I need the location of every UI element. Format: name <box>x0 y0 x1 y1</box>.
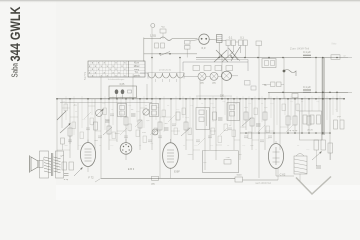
electrolytic blob 2 <box>121 89 125 94</box>
capacitor C block top right <box>303 50 311 58</box>
dial lamp <box>199 34 209 50</box>
resistor bottom middle <box>151 176 158 185</box>
coil taps <box>154 79 156 82</box>
wire right bus at 133 <box>240 132 330 134</box>
wire right power drops <box>315 150 317 166</box>
tube V4 UCL11 (oval) <box>268 141 286 177</box>
wire tuning row <box>206 75 210 77</box>
switch arm diagonal 1 <box>229 48 239 60</box>
mains choke with core <box>294 154 307 175</box>
resistor right power 3 <box>328 143 333 153</box>
transformer frame right <box>56 151 64 178</box>
transformer core <box>51 153 52 176</box>
wire bottom loop bottom <box>203 172 239 174</box>
capacitor mid 5 <box>256 124 261 126</box>
resistor under fuse 1 <box>155 43 159 48</box>
resistor mid 3 <box>124 117 128 125</box>
IF filter can 2 <box>150 104 159 117</box>
resistor mid 6 <box>176 112 180 120</box>
wire mid-right bus <box>268 91 348 93</box>
resistor right rail 1 <box>286 116 290 125</box>
check mark annotation <box>296 177 331 195</box>
resistor in right box 2 <box>310 115 314 124</box>
svg-text:Zum UKW-Teil: Zum UKW-Teil <box>290 47 310 51</box>
antenna coil windings <box>148 73 184 79</box>
resistor mid 11 <box>263 112 267 120</box>
svg-text:0,05: 0,05 <box>120 83 125 86</box>
wire drop from cap block <box>218 43 220 58</box>
resistor right rail 2 <box>293 116 297 125</box>
wire bottom diagonal left <box>95 178 101 182</box>
resistor mid 5 <box>158 122 162 130</box>
resistor left rail <box>68 128 72 136</box>
tube V1 UCH11 (oval) <box>80 140 95 180</box>
scattered value labels <box>60 104 268 164</box>
extra capacitor symbols <box>68 114 272 142</box>
wire bottom loop right <box>238 151 240 173</box>
oscillator coil 1 <box>193 66 200 71</box>
wire speaker links <box>43 157 44 161</box>
resistor lower-left 1 <box>62 162 67 170</box>
node dots top bus <box>151 57 153 59</box>
svg-text:Lang: Lang <box>134 69 140 71</box>
svg-text:1M: 1M <box>238 154 241 156</box>
wire dial lamp left <box>190 40 199 42</box>
switch arm diagonal 2 <box>231 47 240 61</box>
resistor above heater wire <box>160 27 166 39</box>
oscillator coil 4 <box>226 66 233 71</box>
trimmer arrow lower-left <box>74 168 82 176</box>
wire box drops <box>116 95 118 99</box>
wave switch unit box <box>109 83 137 98</box>
fuse Si <box>160 37 172 41</box>
resistor right power 2 <box>321 140 326 150</box>
trimmer arrow right power <box>312 152 321 160</box>
svg-text:6,3: 6,3 <box>202 46 206 50</box>
capacitor bottom <box>235 175 243 183</box>
resistor mid 10 <box>250 118 254 126</box>
svg-text:2μ 2μ 2μ: 2μ 2μ 2μ <box>289 130 298 132</box>
resistor box far right top <box>331 43 346 60</box>
oscillator coil 2 <box>204 66 211 71</box>
trimmer arrow left <box>60 124 70 133</box>
stub wires above bus <box>66 96 340 99</box>
svg-text:20 20: 20 20 <box>307 130 313 132</box>
wire upper partial bus <box>196 95 232 97</box>
resistor mid 2 <box>107 126 111 134</box>
capacitor mid 4 <box>218 118 223 120</box>
band switch cross <box>214 50 240 62</box>
resistor lower-left 2 <box>69 162 74 170</box>
svg-text:Mittel: Mittel <box>134 65 140 68</box>
capacitor mid 3 <box>164 128 169 130</box>
wire right end mid <box>348 91 352 93</box>
svg-text:nach UKW-Teil: nach UKW-Teil <box>255 182 271 185</box>
resistor right edge 2 <box>340 120 344 129</box>
resistor mid 4 <box>138 120 142 128</box>
capacitor right power <box>316 166 321 168</box>
oscillator coil 3 <box>215 66 222 71</box>
wire left small links <box>62 144 64 150</box>
node dots center bus <box>56 98 58 100</box>
resistor right rail 3 <box>307 116 311 125</box>
wire heater feed upper <box>144 38 160 40</box>
resistor in right box 3 <box>317 115 321 124</box>
capacitor hatched block <box>217 35 223 43</box>
wire resistor stack drop <box>186 49 188 57</box>
extra faint value labels <box>63 101 338 151</box>
resistor pair A top row <box>226 36 235 46</box>
title Saba 344 GWLK <box>7 7 23 78</box>
svg-text:Schalterstellungen: Schalterstellungen <box>108 78 124 81</box>
resistor right power 1 <box>314 140 319 150</box>
small cap in box <box>128 90 132 93</box>
wire top segment to lamp area <box>222 40 226 42</box>
capacitor lower-left <box>64 174 69 182</box>
svg-text:Netz: Netz <box>332 43 338 46</box>
wire x284 vertical <box>283 58 285 99</box>
wire coil row left <box>140 72 148 74</box>
tuning capacitor section 2 <box>210 72 218 84</box>
wire right lower link <box>275 168 277 176</box>
switch position table <box>88 61 145 81</box>
speaker frame box <box>40 151 49 178</box>
box right mid <box>300 111 322 140</box>
small box mid cluster <box>251 86 256 90</box>
wire coil row right <box>184 75 198 77</box>
TA component pair <box>262 82 284 87</box>
resistor mid 8 <box>213 112 217 120</box>
resistor mid 7 <box>184 122 188 130</box>
wire right end top <box>348 57 352 59</box>
loudspeaker <box>30 156 44 173</box>
trimmer arrow mid3 <box>242 118 251 126</box>
coupling cap left <box>61 138 65 144</box>
vertical wires from center bus <box>57 46 337 179</box>
trimmer arrow mid2 <box>181 128 190 136</box>
wire bottom run right <box>243 179 279 181</box>
svg-text:51773: 51773 <box>83 71 87 80</box>
resistor pair B top row <box>239 36 248 46</box>
svg-text:344 GWLK: 344 GWLK <box>7 7 23 62</box>
variable trimmer 1 <box>96 109 104 117</box>
svg-text:Sperrkr.: Sperrkr. <box>132 74 140 77</box>
svg-text:0,1 μF: 0,1 μF <box>303 85 311 89</box>
antenna switch arm <box>57 111 66 120</box>
resistor in right box 1 <box>303 115 307 124</box>
wire dial lamp right <box>209 39 222 40</box>
svg-text:0,1: 0,1 <box>229 36 233 40</box>
capacitor C block mid right <box>303 85 311 92</box>
junction blob right <box>283 70 286 73</box>
trimmer arrow mid <box>103 127 112 135</box>
svg-text:a 4μ: a 4μ <box>64 179 69 181</box>
output transformer primary <box>44 157 51 173</box>
svg-text:T.A.: T.A. <box>135 71 139 74</box>
wire x322 stub below bus133 <box>322 135 324 140</box>
resistor under fuse 2 <box>161 43 165 48</box>
extra vertical wires <box>66 99 340 135</box>
wire bottom loop top <box>203 150 239 152</box>
short connector wires midband <box>57 106 288 150</box>
svg-text:Saba: Saba <box>10 63 20 78</box>
IF filter can 4 <box>227 103 240 121</box>
extra diagonal trimmer arrows <box>84 112 293 145</box>
wire x152 vertical top <box>151 28 153 99</box>
oscillator coil pack frame <box>183 60 248 72</box>
svg-text:5000: 5000 <box>187 154 193 156</box>
svg-text:1M: 1M <box>164 123 167 125</box>
resistor small at x259 top <box>256 41 262 46</box>
svg-text:F 72: F 72 <box>88 176 94 180</box>
resistor stack R dial lower <box>185 46 191 50</box>
resistor right edge 1 <box>334 120 338 129</box>
svg-text:0,1: 0,1 <box>240 36 244 40</box>
node dots right bus <box>245 132 247 134</box>
wire main top bus <box>196 57 348 59</box>
electrolytic blob 1 <box>115 89 119 94</box>
twin conductor vertical <box>322 58 324 136</box>
capacitor mid 1 <box>105 120 110 122</box>
IF filter can 3 <box>196 108 210 130</box>
svg-text:5000: 5000 <box>237 175 243 177</box>
small box right of tuning row <box>245 81 251 86</box>
tube V3 UBF11 (oval) <box>163 139 181 178</box>
resistor T42 in loop <box>224 157 231 164</box>
resistor mid 9 <box>244 112 248 120</box>
tube V2 indicator (round) <box>120 139 135 171</box>
wire bottom loop left <box>202 151 204 173</box>
capacitor mid 2 <box>131 114 136 116</box>
wire secondary bus below <box>60 101 152 103</box>
inductor squiggle right <box>284 70 296 77</box>
wire drop resistor A <box>227 46 229 58</box>
wire drop resistor B <box>240 46 242 54</box>
small cap below mid bus <box>292 93 298 98</box>
resistor mid 1 <box>94 122 98 130</box>
node dots mid bus <box>282 92 284 94</box>
wire heater feed lower <box>144 53 197 55</box>
IF filter can 1 <box>118 104 127 117</box>
wire choke bottom <box>299 174 301 181</box>
svg-text:0,1 μF: 0,1 μF <box>303 50 311 54</box>
svg-text:E BF: E BF <box>174 170 180 174</box>
terminal circle x152 <box>151 24 155 28</box>
resistor stack R dial upper <box>185 41 191 45</box>
wire main center bus <box>57 98 345 100</box>
svg-text:E B 3: E B 3 <box>128 167 135 171</box>
svg-text:20 50 20 50: 20 50 20 50 <box>159 70 172 72</box>
tuning capacitor section 3 <box>222 71 232 80</box>
variable trimmer 3 <box>152 129 158 135</box>
tuning capacitor section 1 <box>198 72 206 84</box>
wire top-left vertical <box>143 38 145 62</box>
wire bottom run left <box>101 177 235 179</box>
output transformer secondary <box>54 157 61 173</box>
svg-text:1,5Ω: 1,5Ω <box>150 34 156 38</box>
svg-text:Kurz: Kurz <box>134 62 140 65</box>
box top-right cluster <box>262 59 276 68</box>
switch contact heater <box>160 52 170 56</box>
variable trimmer 2 <box>143 109 149 115</box>
extra small component boxes <box>64 104 300 143</box>
